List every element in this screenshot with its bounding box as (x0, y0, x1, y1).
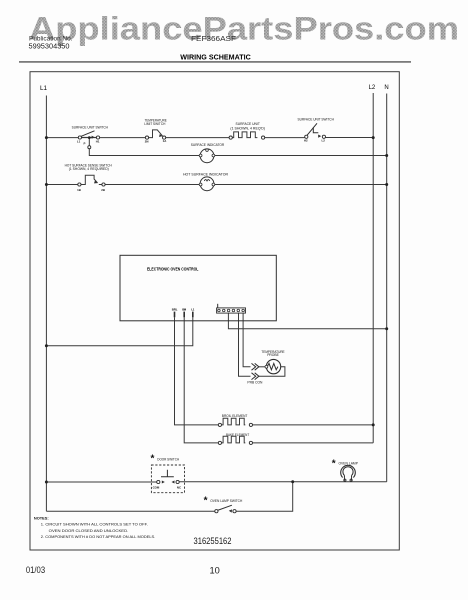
svg-text:NC: NC (177, 486, 182, 490)
svg-text:2. COMPONENTS WITH # DO NOT: 2. COMPONENTS WITH # DO NOT APPEAR ON AL… (41, 535, 156, 539)
svg-text:1A: 1A (163, 139, 168, 143)
svg-text:OVEN DOOR CLOSED AND UNLOCKED.: OVEN DOOR CLOSED AND UNLOCKED. (49, 529, 129, 533)
svg-text:2B: 2B (101, 188, 105, 192)
svg-text:P: P (84, 141, 86, 145)
svg-text:ELECTRONIC OVEN CONTROL: ELECTRONIC OVEN CONTROL (147, 267, 199, 272)
svg-text:SURFACE UNIT: SURFACE UNIT (236, 122, 260, 126)
svg-text:PRB CON: PRB CON (247, 381, 263, 385)
svg-text:BAKE ELEMENT: BAKE ELEMENT (226, 433, 249, 437)
svg-text:OVEN LAMP: OVEN LAMP (338, 461, 358, 465)
svg-text:LIMIT SWITCH: LIMIT SWITCH (144, 122, 166, 126)
svg-text:SURFACE UNIT SWITCH: SURFACE UNIT SWITCH (72, 126, 109, 130)
svg-text:PROBE: PROBE (267, 353, 279, 357)
svg-text:WIRING SCHEMATIC: WIRING SCHEMATIC (180, 52, 251, 61)
svg-text:N: N (384, 85, 388, 91)
svg-text:5995304350: 5995304350 (29, 42, 70, 51)
svg-text:BRL: BRL (172, 307, 178, 311)
svg-text:H2: H2 (304, 139, 308, 143)
svg-text:HOT SURFACE INDICATOR: HOT SURFACE INDICATOR (183, 173, 229, 177)
svg-text:316255162: 316255162 (194, 536, 232, 547)
svg-text:L2: L2 (369, 85, 376, 91)
svg-text:2N: 2N (145, 139, 149, 143)
svg-text:*: * (204, 496, 208, 507)
svg-text:BM: BM (182, 307, 187, 311)
svg-text:L2: L2 (322, 139, 326, 143)
svg-text:SURFACE UNIT SWITCH: SURFACE UNIT SWITCH (298, 118, 335, 122)
svg-text:BROIL ELEMENT: BROIL ELEMENT (222, 414, 248, 418)
svg-text:FEF366ASF: FEF366ASF (191, 34, 236, 43)
svg-text:COM: COM (153, 486, 160, 490)
svg-text:L1: L1 (191, 307, 195, 311)
svg-text:10: 10 (210, 565, 220, 575)
svg-text:L1: L1 (77, 140, 81, 144)
svg-text:DOOR SWITCH: DOOR SWITCH (157, 458, 179, 462)
svg-text:SURFACE INDICATOR: SURFACE INDICATOR (191, 143, 225, 147)
svg-text:H1: H1 (96, 140, 100, 144)
svg-text:1B: 1B (77, 188, 81, 192)
svg-text:*: * (332, 459, 336, 470)
svg-text:*: * (151, 454, 155, 465)
svg-text:L1: L1 (40, 85, 48, 92)
svg-text:1. CIRCUIT SHOWN WITH ALL CON: 1. CIRCUIT SHOWN WITH ALL CONTROLS SET T… (41, 522, 148, 526)
svg-text:OVEN LAMP SWITCH: OVEN LAMP SWITCH (210, 499, 243, 503)
svg-text:01/03: 01/03 (26, 565, 45, 575)
svg-text:NOTES:: NOTES: (34, 517, 49, 521)
svg-text:(1 SHOWN, 4 REQ'D): (1 SHOWN, 4 REQ'D) (230, 126, 265, 130)
svg-text:AppliancePartsPros.com: AppliancePartsPros.com (29, 11, 459, 47)
svg-text:(1 SHOWN, 4 REQUIRED): (1 SHOWN, 4 REQUIRED) (69, 167, 109, 171)
